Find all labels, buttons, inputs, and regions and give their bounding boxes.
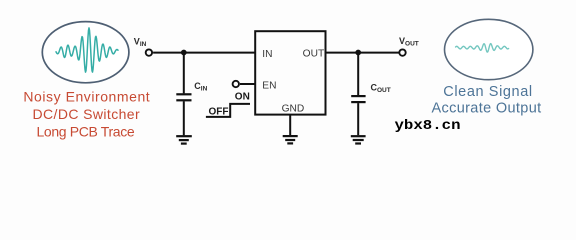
wire COUT to ground — [357, 103, 359, 135]
wire junction to COUT — [357, 53, 359, 96]
node VIN source ellipse (noisy environment) — [42, 22, 129, 83]
node VOUT load ellipse (clean signal) — [445, 19, 533, 79]
node VIN label — [134, 37, 147, 49]
wire OUT pin to VOUT terminal — [326, 52, 399, 54]
wire junction to CIN — [183, 53, 185, 94]
capacitor COUT — [351, 96, 365, 102]
svg-text:DC/DC Switcher: DC/DC Switcher — [33, 106, 141, 122]
capacitor CIN — [176, 94, 191, 100]
enable step signal OFF/ON — [206, 91, 250, 117]
wire GND pin to ground — [289, 115, 291, 136]
svg-text:Accurate Output: Accurate Output — [431, 101, 541, 117]
junction input node — [181, 50, 187, 56]
terminal VOUT — [399, 49, 405, 55]
svg-text:ybx8.cn: ybx8.cn — [395, 118, 461, 134]
ground (COUT) — [351, 136, 366, 143]
IC U1 (LDO regulator block) — [255, 31, 325, 114]
noisy signal waveform — [56, 28, 118, 72]
svg-text:EN: EN — [262, 80, 276, 91]
annotation: clean signal text — [431, 84, 541, 117]
terminal VIN — [146, 49, 152, 55]
wire CIN to ground — [183, 101, 185, 135]
junction output node — [355, 50, 361, 56]
wire VIN terminal to IN pin — [153, 52, 255, 54]
clean signal waveform — [456, 44, 509, 52]
svg-text:OUT: OUT — [303, 48, 325, 59]
svg-text:Clean Signal: Clean Signal — [443, 84, 532, 100]
annotation: noisy environment text — [23, 88, 150, 139]
svg-text:ON: ON — [235, 91, 250, 102]
svg-text:Noisy Environment: Noisy Environment — [23, 88, 150, 104]
svg-text:OFF: OFF — [209, 106, 229, 117]
svg-text:Long PCB Trace: Long PCB Trace — [36, 123, 134, 139]
terminal EN — [233, 81, 239, 87]
ground (IC) — [283, 136, 298, 143]
svg-text:IN: IN — [262, 49, 272, 60]
ground (CIN) — [176, 136, 192, 143]
svg-text:GND: GND — [282, 104, 305, 115]
wire EN terminal to EN pin — [240, 83, 256, 85]
